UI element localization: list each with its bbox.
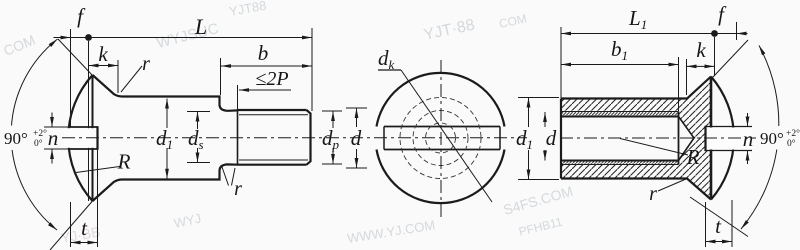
svg-text:d: d: [546, 126, 557, 150]
svg-text:n: n: [48, 126, 59, 150]
svg-text:+2°: +2°: [33, 128, 47, 139]
svg-text:90°: 90°: [4, 129, 28, 148]
svg-text:k: k: [696, 38, 706, 62]
svg-text:0°: 0°: [34, 138, 43, 149]
svg-text:0°: 0°: [787, 138, 796, 149]
svg-text:b: b: [258, 41, 269, 65]
svg-text:n: n: [743, 127, 754, 151]
svg-text:L: L: [194, 14, 207, 39]
svg-text:+2°: +2°: [786, 128, 800, 139]
svg-text:d: d: [351, 126, 362, 150]
svg-text:r: r: [234, 178, 242, 200]
svg-text:≤2P: ≤2P: [255, 68, 288, 90]
svg-text:r: r: [649, 183, 657, 205]
svg-text:R: R: [686, 145, 700, 169]
svg-text:r: r: [142, 53, 150, 75]
svg-text:k: k: [98, 42, 108, 66]
svg-text:R: R: [117, 150, 131, 174]
svg-text:90°: 90°: [760, 129, 784, 148]
